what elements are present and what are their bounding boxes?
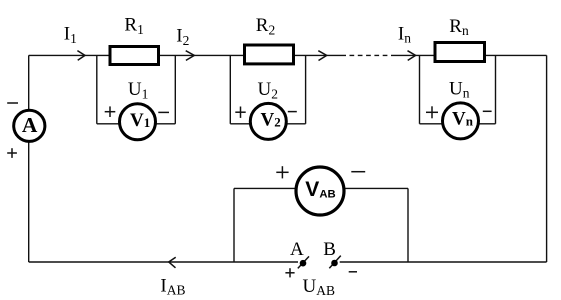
- svg-text:B: B: [323, 239, 336, 260]
- svg-text:A: A: [290, 239, 304, 260]
- svg-text:A: A: [22, 113, 38, 137]
